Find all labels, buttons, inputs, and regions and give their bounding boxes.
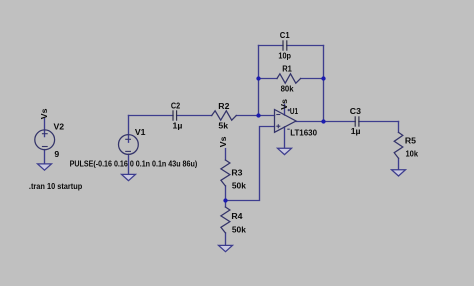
svg-text:LT1630: LT1630 [290, 127, 317, 137]
svg-text:R3: R3 [231, 167, 242, 177]
svg-text:V1: V1 [135, 127, 146, 137]
svg-text:U1: U1 [290, 106, 298, 116]
svg-text:Vs: Vs [279, 99, 289, 110]
svg-text:PULSE(-0.16 0.16 0 0.1n 0.1n 4: PULSE(-0.16 0.16 0 0.1n 0.1n 43u 86u) [70, 159, 198, 169]
svg-text:10p: 10p [278, 50, 291, 60]
svg-text:R5: R5 [405, 136, 416, 146]
svg-text:R1: R1 [282, 63, 292, 73]
svg-text:V2: V2 [54, 122, 65, 132]
svg-text:9: 9 [54, 149, 59, 159]
svg-text:5k: 5k [218, 120, 228, 130]
svg-text:Vs: Vs [39, 108, 49, 119]
svg-text:C2: C2 [171, 101, 180, 111]
svg-text:1µ: 1µ [173, 121, 183, 131]
svg-text:C1: C1 [280, 30, 290, 40]
svg-text:.tran 10 startup: .tran 10 startup [29, 181, 82, 191]
svg-text:80k: 80k [281, 83, 294, 93]
svg-text:50k: 50k [232, 224, 246, 234]
svg-text:R4: R4 [231, 211, 242, 221]
svg-text:R2: R2 [218, 101, 229, 111]
svg-text:50k: 50k [232, 181, 246, 191]
svg-text:10k: 10k [406, 149, 419, 159]
svg-text:1µ: 1µ [351, 126, 361, 136]
svg-text:Vs: Vs [218, 136, 228, 147]
svg-text:C3: C3 [350, 106, 361, 116]
